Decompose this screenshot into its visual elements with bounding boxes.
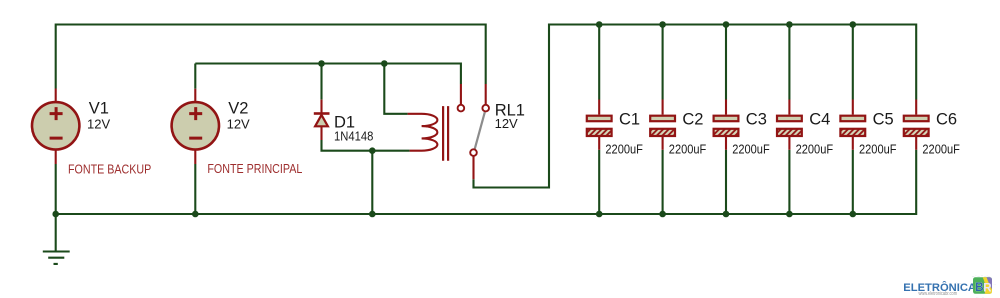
svg-text:2200uF: 2200uF xyxy=(732,142,770,157)
svg-text:1N4148: 1N4148 xyxy=(334,129,374,144)
svg-text:2200uF: 2200uF xyxy=(669,142,707,157)
svg-text:FONTE PRINCIPAL: FONTE PRINCIPAL xyxy=(207,162,302,176)
svg-text:2200uF: 2200uF xyxy=(605,142,643,157)
svg-text:V2: V2 xyxy=(228,100,248,118)
svg-text:2200uF: 2200uF xyxy=(859,142,897,157)
svg-text:_ . _ .. _._: _ . _ .. _._ xyxy=(971,272,991,277)
svg-text:2200uF: 2200uF xyxy=(922,142,960,157)
svg-text:2200uF: 2200uF xyxy=(796,142,834,157)
svg-text:FONTE BACKUP: FONTE BACKUP xyxy=(68,163,151,177)
svg-text:C2: C2 xyxy=(682,111,703,129)
svg-text:R: R xyxy=(983,283,992,295)
svg-text:12V: 12V xyxy=(87,117,110,132)
svg-text:www.eletronicabr.com: www.eletronicabr.com xyxy=(919,291,958,297)
svg-text:C1: C1 xyxy=(619,111,640,129)
svg-text:12V: 12V xyxy=(495,116,518,131)
svg-text:C6: C6 xyxy=(936,111,957,129)
svg-text:C5: C5 xyxy=(873,111,894,129)
svg-text:V1: V1 xyxy=(89,100,109,118)
svg-text:C3: C3 xyxy=(746,111,767,129)
svg-text:12V: 12V xyxy=(227,117,250,132)
svg-text:C4: C4 xyxy=(809,111,830,129)
svg-text:..: .. xyxy=(994,281,996,286)
